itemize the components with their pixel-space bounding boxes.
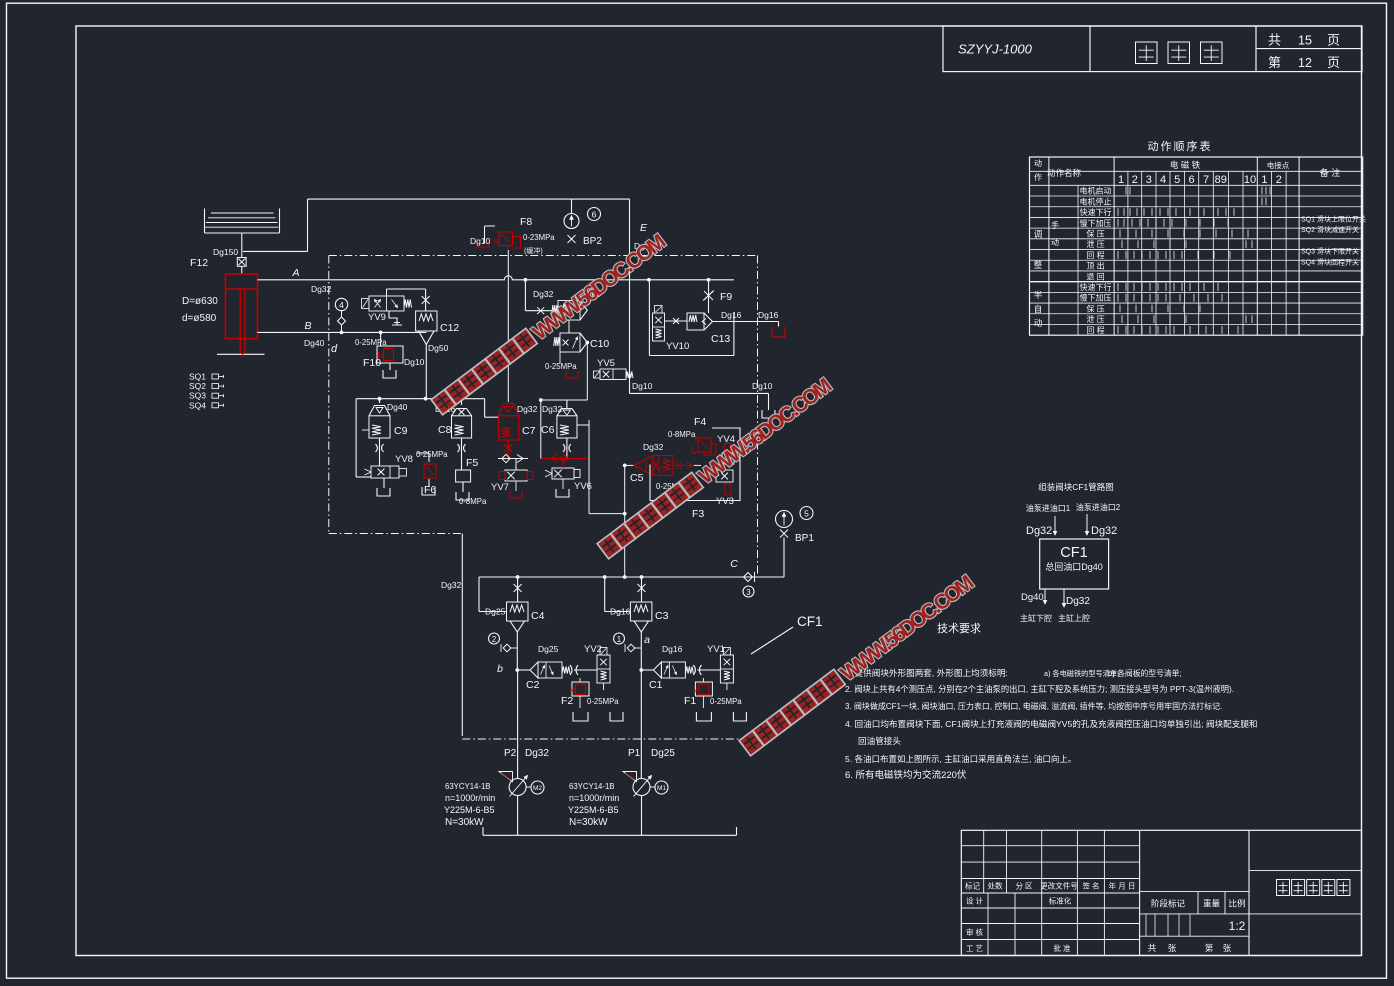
- valve block chain boundary: [329, 255, 758, 257]
- svg-text:Dg50: Dg50: [428, 343, 449, 353]
- svg-text:M: M: [494, 238, 499, 245]
- relief F1: [702, 678, 704, 682]
- watermark 2: [597, 374, 836, 562]
- svg-text:(缓冲): (缓冲): [524, 246, 543, 255]
- svg-text:Dg32: Dg32: [525, 748, 549, 759]
- svg-text:页: 页: [1327, 33, 1340, 48]
- svg-text:SQ4 滑块回程开关: SQ4 滑块回程开关: [1301, 257, 1359, 266]
- valve YV6: [552, 468, 574, 479]
- svg-text:Dg10: Dg10: [632, 381, 653, 391]
- svg-text:2: 2: [1132, 174, 1138, 186]
- svg-text:YV7: YV7: [491, 482, 509, 493]
- svg-text:M: M: [695, 437, 700, 443]
- valve C11: [524, 280, 526, 311]
- svg-text:半: 半: [1034, 290, 1043, 300]
- svg-text:6. 所有电磁铁均为交流220伏: 6. 所有电磁铁均为交流220伏: [845, 769, 967, 781]
- svg-text:页: 页: [1327, 55, 1340, 70]
- svg-text:张: 张: [1168, 943, 1177, 953]
- throttle F9: [708, 280, 710, 313]
- svg-text:技术要求: 技术要求: [937, 622, 981, 635]
- svg-text:Dg10: Dg10: [470, 236, 491, 246]
- svg-text:N=30kW: N=30kW: [569, 817, 608, 828]
- svg-text:签 名: 签 名: [1082, 881, 1099, 891]
- svg-text:Dg40: Dg40: [387, 402, 408, 412]
- svg-text:Dg10: Dg10: [752, 381, 773, 391]
- svg-text:C9: C9: [394, 425, 408, 437]
- svg-text:Dg32: Dg32: [441, 580, 462, 590]
- lower manifold block: [479, 576, 784, 578]
- relief F6 (red): [428, 453, 430, 462]
- svg-text:M: M: [570, 687, 575, 694]
- svg-text:1: 1: [1261, 174, 1267, 186]
- svg-text:Dg32: Dg32: [1066, 596, 1090, 607]
- svg-text:10: 10: [1244, 174, 1256, 186]
- valve YV9: [369, 296, 404, 311]
- relief F8 (red): [484, 226, 486, 243]
- svg-text:电机启动: 电机启动: [1080, 186, 1112, 196]
- svg-text:顶 出: 顶 出: [1086, 261, 1104, 271]
- relief F10: [380, 332, 382, 346]
- bottom title block: [961, 830, 1361, 955]
- svg-text:E: E: [640, 222, 648, 234]
- svg-text:1: 1: [617, 635, 622, 644]
- svg-text:F3: F3: [692, 508, 704, 520]
- svg-text:89: 89: [1215, 174, 1227, 186]
- svg-text:快速下行: 快速下行: [1080, 282, 1112, 292]
- svg-text:0-25MPa: 0-25MPa: [587, 697, 619, 706]
- svg-text:动作名称: 动作名称: [1047, 168, 1082, 178]
- svg-text:b) 各阀板的型号清单;: b) 各阀板的型号清单;: [1108, 668, 1182, 678]
- svg-text:保 压: 保 压: [1086, 303, 1104, 313]
- wire top bus drop: [307, 199, 309, 251]
- svg-text:M: M: [693, 687, 698, 694]
- svg-text:动: 动: [1034, 318, 1043, 328]
- svg-text:比例: 比例: [1228, 899, 1245, 909]
- svg-text:YV5: YV5: [597, 358, 615, 369]
- svg-text:1: 1: [1118, 174, 1124, 186]
- red check row C6: [541, 458, 587, 460]
- svg-text:F1: F1: [684, 695, 696, 707]
- line E wire: [629, 199, 631, 393]
- gauge BP2: [571, 199, 573, 213]
- svg-text:YV3: YV3: [716, 496, 734, 507]
- wire: [540, 400, 542, 459]
- svg-text:M2: M2: [533, 785, 542, 792]
- svg-text:回 程: 回 程: [1086, 326, 1104, 335]
- svg-text:Dg32: Dg32: [533, 289, 554, 299]
- svg-text:7: 7: [1203, 174, 1209, 186]
- svg-text:Y225M-6-B5: Y225M-6-B5: [568, 805, 619, 815]
- svg-text:泄 压: 泄 压: [1086, 239, 1104, 249]
- svg-text:主缸下腔: 主缸下腔: [1020, 613, 1052, 623]
- svg-text:15: 15: [1298, 34, 1312, 48]
- tank drain: [696, 712, 711, 721]
- svg-text:C: C: [730, 558, 738, 570]
- svg-text:第: 第: [1268, 55, 1281, 70]
- tank drain: [377, 488, 390, 496]
- check valve to F5: [498, 458, 528, 460]
- line A Dg32: [257, 276, 734, 280]
- svg-text:批 准: 批 准: [1053, 943, 1071, 953]
- svg-text:自: 自: [1034, 304, 1043, 314]
- svg-text:慢下加压: 慢下加压: [1080, 218, 1112, 228]
- svg-text:F12: F12: [190, 257, 208, 269]
- svg-text:63YCY14-1B: 63YCY14-1B: [445, 782, 491, 791]
- svg-text:SQ1: SQ1: [189, 372, 206, 382]
- svg-text:动: 动: [1051, 237, 1059, 247]
- pump 2: [509, 779, 526, 796]
- svg-text:C5: C5: [630, 472, 644, 484]
- svg-text:标准化: 标准化: [1049, 896, 1072, 906]
- svg-text:YV10: YV10: [666, 341, 689, 352]
- svg-text:阶段标记: 阶段标记: [1151, 899, 1186, 909]
- svg-text:第: 第: [1205, 943, 1214, 953]
- svg-text:SQ2: SQ2: [189, 381, 206, 391]
- svg-text:回 程: 回 程: [1086, 251, 1104, 260]
- svg-text:退 回: 退 回: [1086, 272, 1104, 281]
- Dg10 drain wire: [630, 392, 769, 394]
- svg-text:处数: 处数: [988, 881, 1003, 891]
- svg-text:回油管接头: 回油管接头: [858, 735, 901, 746]
- cartridge valve C6: [557, 409, 577, 416]
- svg-text:油泵进油口2: 油泵进油口2: [1076, 502, 1121, 512]
- svg-text:Dg25: Dg25: [651, 748, 675, 759]
- svg-text:2. 阀块上共有4个测压点, 分别在2个主油泵的出口, 主缸: 2. 阀块上共有4个测压点, 分别在2个主油泵的出口, 主缸下腔及系统压力; 测…: [845, 684, 1234, 694]
- svg-text:F9: F9: [720, 291, 732, 303]
- svg-text:SQ3 滑块下限开关: SQ3 滑块下限开关: [1301, 247, 1359, 256]
- svg-text:电机停止: 电机停止: [1080, 196, 1112, 206]
- svg-text:4. 回油口均布置阀块下面, CF1阀块上打充液阀的电磁阀Y: 4. 回油口均布置阀块下面, CF1阀块上打充液阀的电磁阀YV5的孔及充液阀控压…: [845, 718, 1258, 729]
- tank drain: [556, 489, 569, 497]
- cartridge valve C8: [452, 409, 472, 416]
- sub-block YV10/C13: [648, 280, 650, 356]
- svg-text:C2: C2: [526, 679, 540, 691]
- svg-text:63YCY14-1B: 63YCY14-1B: [569, 782, 615, 791]
- svg-text:共: 共: [1268, 33, 1281, 48]
- svg-text:SQ3: SQ3: [189, 391, 206, 401]
- svg-text:电 磁 铁: 电 磁 铁: [1170, 160, 1201, 170]
- svg-text:a: a: [644, 634, 650, 646]
- svg-text:4: 4: [339, 300, 344, 310]
- svg-text:慢下加压: 慢下加压: [1080, 293, 1112, 303]
- svg-text:4: 4: [1160, 174, 1166, 186]
- svg-text:SQ1 滑块上限位开关: SQ1 滑块上限位开关: [1301, 215, 1366, 224]
- svg-text:主缸上腔: 主缸上腔: [1058, 613, 1090, 623]
- svg-text:12: 12: [1298, 56, 1312, 70]
- svg-text:电接点: 电接点: [1267, 160, 1290, 170]
- svg-text:0-25MPa: 0-25MPa: [710, 697, 742, 706]
- svg-text:C6: C6: [541, 424, 555, 436]
- svg-text:C7: C7: [522, 425, 536, 437]
- svg-text:更改文件号: 更改文件号: [1040, 881, 1078, 891]
- svg-text:手: 手: [1051, 220, 1059, 230]
- svg-text:3: 3: [746, 588, 751, 597]
- valve YV10: [653, 313, 665, 341]
- svg-text:保 压: 保 压: [1086, 228, 1104, 238]
- svg-text:SQ2 滑块减速开关: SQ2 滑块减速开关: [1301, 225, 1359, 234]
- tank drain: [422, 487, 435, 495]
- svg-text:F4: F4: [694, 416, 706, 428]
- svg-text:备 注: 备 注: [1320, 167, 1341, 178]
- svg-text:张: 张: [1223, 943, 1232, 953]
- svg-text:5: 5: [1174, 174, 1180, 186]
- svg-text:工 艺: 工 艺: [966, 944, 983, 953]
- svg-text:SQ4: SQ4: [189, 400, 206, 410]
- svg-text:Dg25: Dg25: [485, 607, 506, 617]
- svg-text:0-25MPa: 0-25MPa: [545, 362, 577, 371]
- svg-text:2: 2: [1276, 174, 1282, 186]
- svg-text:SZYYJ-1000: SZYYJ-1000: [958, 42, 1032, 57]
- check valve node C: [744, 573, 753, 582]
- mid bus wire: [356, 398, 485, 400]
- proportional block F3: [650, 428, 740, 501]
- cartridge valve C4: [478, 577, 480, 612]
- svg-text:0-8MPa: 0-8MPa: [459, 497, 487, 506]
- valve F5: [456, 470, 471, 482]
- svg-text:d=ø580: d=ø580: [182, 313, 217, 324]
- svg-text:作: 作: [1034, 172, 1042, 182]
- valve YV7: [515, 459, 517, 471]
- watermark 1: [431, 230, 670, 418]
- svg-text:油泵进油口1: 油泵进油口1: [1026, 503, 1071, 513]
- svg-text:C12: C12: [440, 322, 459, 334]
- svg-text:Dg16: Dg16: [610, 607, 631, 617]
- tank drain: [610, 712, 623, 721]
- svg-text:审 核: 审 核: [966, 927, 984, 937]
- svg-text:N=30kW: N=30kW: [445, 817, 484, 828]
- svg-text:5. 各油口布置如上图所示, 主缸油口采用直角法兰, 油口向: 5. 各油口布置如上图所示, 主缸油口采用直角法兰, 油口向上。: [845, 754, 1076, 764]
- svg-text:C4: C4: [531, 610, 545, 622]
- valve C2: [530, 662, 538, 678]
- svg-text:Dg40: Dg40: [1021, 592, 1044, 603]
- svg-text:总回油口Dg40: 总回油口Dg40: [1045, 561, 1103, 572]
- svg-text:Dg150: Dg150: [213, 247, 238, 257]
- valve YV2: [597, 655, 610, 683]
- valve C10: [560, 333, 580, 352]
- svg-text:Dg32: Dg32: [1091, 525, 1117, 537]
- svg-text:YV9: YV9: [368, 312, 386, 323]
- svg-text:P1: P1: [628, 748, 641, 759]
- valve C1: [653, 662, 661, 678]
- svg-text:Dg16: Dg16: [721, 310, 742, 320]
- test point 4: [335, 298, 347, 310]
- svg-text:d: d: [331, 343, 338, 355]
- svg-text:设 计: 设 计: [966, 896, 984, 906]
- svg-text:C13: C13: [711, 333, 730, 345]
- svg-text:YV8: YV8: [395, 454, 413, 465]
- piston rod: [239, 289, 241, 354]
- tank drain: [383, 370, 396, 378]
- svg-text:n=1000r/min: n=1000r/min: [569, 793, 619, 803]
- piston rod: [244, 289, 246, 354]
- test point 2: [489, 633, 500, 644]
- svg-text:0-8MPa: 0-8MPa: [668, 430, 696, 439]
- svg-text:YV1: YV1: [707, 644, 725, 655]
- valve YV5: [600, 369, 626, 380]
- valve C13: [687, 313, 704, 330]
- gauge BP1: [776, 511, 793, 528]
- svg-text:3. 阀块做成CF1一块, 阀块油口, 压力表口, 控制口,: 3. 阀块做成CF1一块, 阀块油口, 压力表口, 控制口, 电磁阀, 溢流阀,…: [845, 701, 1222, 711]
- svg-text:共: 共: [1148, 943, 1157, 953]
- svg-text:组装阀块CF1管路图: 组装阀块CF1管路图: [1038, 482, 1114, 492]
- svg-text:CF1: CF1: [797, 614, 823, 629]
- svg-text:动作顺序表: 动作顺序表: [1148, 139, 1213, 153]
- svg-text:BP2: BP2: [583, 236, 602, 247]
- tank drain: [573, 712, 588, 721]
- cartridge valve C9: [369, 406, 390, 416]
- svg-text:B: B: [304, 320, 311, 332]
- svg-text:b: b: [497, 663, 503, 675]
- watermark 3: [739, 571, 978, 759]
- tank drain: [456, 492, 469, 500]
- pump 1: [633, 779, 650, 796]
- svg-text:Dg16: Dg16: [662, 644, 683, 654]
- svg-text:C10: C10: [590, 338, 609, 350]
- svg-text:6: 6: [1188, 174, 1194, 186]
- svg-text:快速下行: 快速下行: [1080, 207, 1112, 217]
- svg-text:Dg10: Dg10: [404, 357, 425, 367]
- pump lines P2/P1: [517, 670, 519, 778]
- filter F12: [237, 258, 246, 267]
- tank drain: [733, 712, 746, 721]
- svg-text:Dg32: Dg32: [542, 404, 563, 414]
- piston: [226, 288, 258, 290]
- svg-text:5: 5: [804, 509, 809, 519]
- svg-text:YV2: YV2: [584, 644, 602, 655]
- svg-text:C1: C1: [649, 679, 663, 691]
- suction line: [483, 834, 737, 836]
- svg-text:1:2: 1:2: [1229, 919, 1246, 933]
- valve YV1: [720, 655, 733, 683]
- svg-text:0-25MPa: 0-25MPa: [416, 450, 448, 459]
- wire: [243, 250, 308, 252]
- svg-text:年 月 日: 年 月 日: [1109, 881, 1136, 891]
- svg-text:F5: F5: [466, 457, 478, 469]
- line B Dg40: [257, 331, 426, 333]
- svg-text:A: A: [291, 267, 299, 279]
- svg-text:标记: 标记: [965, 881, 980, 891]
- svg-text:P2: P2: [504, 748, 517, 759]
- top bus wire: [308, 198, 630, 200]
- suction pipe Dg150: [241, 233, 243, 258]
- svg-text:C3: C3: [655, 610, 669, 622]
- svg-text:Dg40: Dg40: [304, 338, 325, 348]
- tank drain: [762, 410, 775, 418]
- svg-text:BP1: BP1: [795, 533, 814, 544]
- svg-text:分 区: 分 区: [1015, 882, 1033, 891]
- svg-text:动: 动: [1034, 158, 1042, 168]
- CF1 pointer: [751, 627, 793, 654]
- svg-text:重量: 重量: [1203, 899, 1221, 909]
- wires C10/C6 drain: [541, 399, 588, 401]
- svg-text:Dg32: Dg32: [1026, 525, 1052, 537]
- svg-text:C8: C8: [438, 424, 452, 436]
- relief F2: [579, 678, 581, 682]
- wire from F8: [507, 250, 509, 402]
- oil tank (cooler): [204, 209, 206, 234]
- svg-text:Dg25: Dg25: [538, 644, 559, 654]
- test point 1: [614, 633, 625, 644]
- svg-text:M1: M1: [657, 785, 666, 792]
- cartridge valve C5 (red): [625, 464, 634, 466]
- svg-text:CF1: CF1: [1060, 545, 1087, 561]
- svg-text:D=ø630: D=ø630: [182, 296, 218, 307]
- valve YV8: [371, 466, 399, 478]
- svg-text:F8: F8: [520, 216, 532, 228]
- svg-text:F2: F2: [561, 695, 573, 707]
- ground line: [217, 353, 265, 355]
- svg-text:M: M: [378, 353, 383, 360]
- svg-text:0-23MPa: 0-23MPa: [523, 233, 555, 242]
- svg-text:n=1000r/min: n=1000r/min: [445, 793, 495, 803]
- cartridge valve C3: [604, 577, 606, 612]
- svg-text:泄 压: 泄 压: [1086, 314, 1104, 324]
- svg-text:调: 调: [1034, 229, 1043, 239]
- valve C12: [425, 289, 427, 311]
- svg-text:Y225M-6-B5: Y225M-6-B5: [444, 805, 495, 815]
- svg-text:Dg32: Dg32: [517, 404, 538, 414]
- top title strip: [943, 26, 1362, 72]
- svg-text:Dg32: Dg32: [643, 442, 664, 452]
- svg-text:3: 3: [1146, 174, 1152, 186]
- svg-text:6: 6: [592, 210, 597, 220]
- main cylinder (red): [226, 274, 258, 339]
- svg-text:2: 2: [492, 635, 497, 644]
- svg-text:0-25MPa: 0-25MPa: [355, 338, 387, 347]
- svg-text:Dg16: Dg16: [758, 310, 779, 320]
- svg-text:整: 整: [1034, 260, 1043, 270]
